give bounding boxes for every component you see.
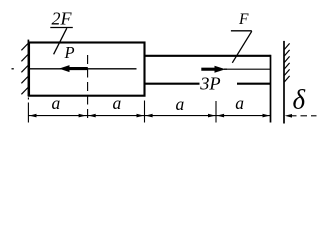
- svg-text:F: F: [238, 11, 249, 28]
- svg-text:P: P: [64, 43, 75, 62]
- svg-text:a: a: [52, 93, 61, 113]
- svg-text:2F: 2F: [52, 9, 73, 29]
- svg-text:a: a: [235, 93, 244, 113]
- svg-text:δ: δ: [293, 85, 306, 115]
- svg-text:3P: 3P: [199, 73, 220, 93]
- svg-text:a: a: [113, 93, 122, 113]
- svg-text:a: a: [176, 94, 185, 114]
